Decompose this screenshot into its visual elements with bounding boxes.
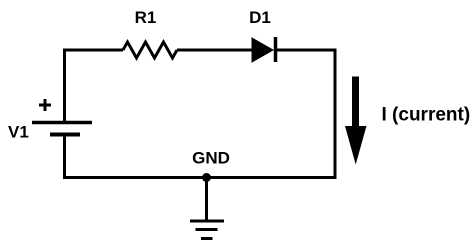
wire top-left segment [65,50,124,122]
wire battery-to-bottom [63,134,66,179]
battery V1 [32,123,92,135]
node GND junction dot [202,173,211,182]
wire resistor-to-diode [177,49,253,52]
plus sign [39,99,51,111]
diode D1 [252,37,276,62]
wire bottom [63,176,337,179]
svg-text:D1: D1 [249,8,271,27]
svg-text:V1: V1 [8,123,29,142]
ground [190,178,224,239]
svg-text:R1: R1 [135,8,157,27]
wire diode-to-corner and right side [275,50,335,178]
svg-text:I (current): I (current) [382,105,471,126]
svg-text:GND: GND [192,149,230,168]
current arrow [345,77,367,165]
resistor R1 [123,42,177,58]
